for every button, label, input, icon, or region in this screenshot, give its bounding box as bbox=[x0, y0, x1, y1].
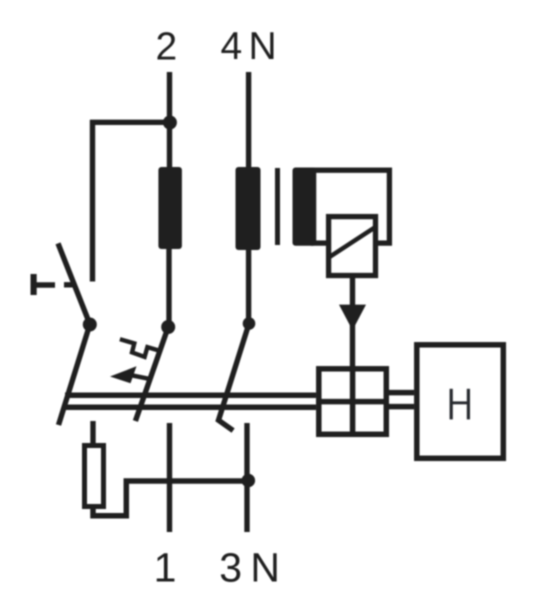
node: right pole pivot bbox=[243, 317, 256, 330]
node: test circuit junction on 3N bbox=[242, 474, 256, 488]
svg-text:1: 1 bbox=[154, 544, 177, 590]
svg-text:3: 3 bbox=[219, 545, 242, 591]
wire: line 4N vertical bbox=[246, 72, 251, 324]
wire: resistor bottom to neutral bbox=[93, 481, 245, 516]
overcurrent release actuator (zigzag) bbox=[120, 339, 161, 357]
node: middle pole pivot bbox=[161, 320, 175, 334]
node: test-tap junction on line 2 bbox=[163, 116, 177, 130]
test resistor bbox=[85, 446, 104, 507]
wire: left pole bottom stub bbox=[90, 421, 95, 445]
mechanism crossed box bbox=[316, 366, 389, 437]
neutral element on line 4N bbox=[236, 167, 261, 250]
svg-text:2: 2 bbox=[155, 26, 177, 69]
wire: line 2 top vertical bbox=[167, 72, 172, 167]
mechanical linkage double line (left span) bbox=[64, 395, 316, 407]
secondary winding (filled) bbox=[293, 168, 317, 246]
wire: test tap horizontal bbox=[90, 120, 169, 125]
overcurrent release (thermal element) on line 2 bbox=[158, 167, 182, 249]
svg-text:4: 4 bbox=[220, 25, 242, 68]
right pole blade bbox=[219, 324, 250, 431]
indicator box H bbox=[417, 345, 504, 459]
test button T bbox=[31, 274, 76, 295]
terminal label 3N bbox=[219, 545, 280, 591]
test switch blade bbox=[58, 243, 90, 324]
wire: relay to mechanism bbox=[350, 278, 355, 366]
svg-text:N: N bbox=[249, 25, 277, 68]
left pole blade bbox=[59, 325, 90, 426]
trip relay box with diagonal bbox=[329, 217, 376, 276]
summation winding box bbox=[314, 170, 390, 243]
mechanical linkage double line (right span) bbox=[389, 393, 414, 407]
wire: line 1 bottom stub bbox=[167, 423, 172, 532]
terminal label 4N bbox=[220, 25, 276, 68]
wire: line 2 lower vertical to pole bbox=[166, 249, 171, 327]
magnetic release arrow bbox=[110, 366, 152, 383]
wire: line 3N bottom stub bbox=[244, 423, 249, 532]
node: left pole pivot bbox=[83, 318, 97, 332]
svg-text:N: N bbox=[250, 545, 280, 591]
current transformer core bbox=[275, 168, 280, 245]
actuation arrow (down) bbox=[339, 305, 366, 331]
middle pole blade bbox=[135, 327, 168, 421]
wire: test tap vertical (fixed test contact) bbox=[90, 120, 95, 282]
